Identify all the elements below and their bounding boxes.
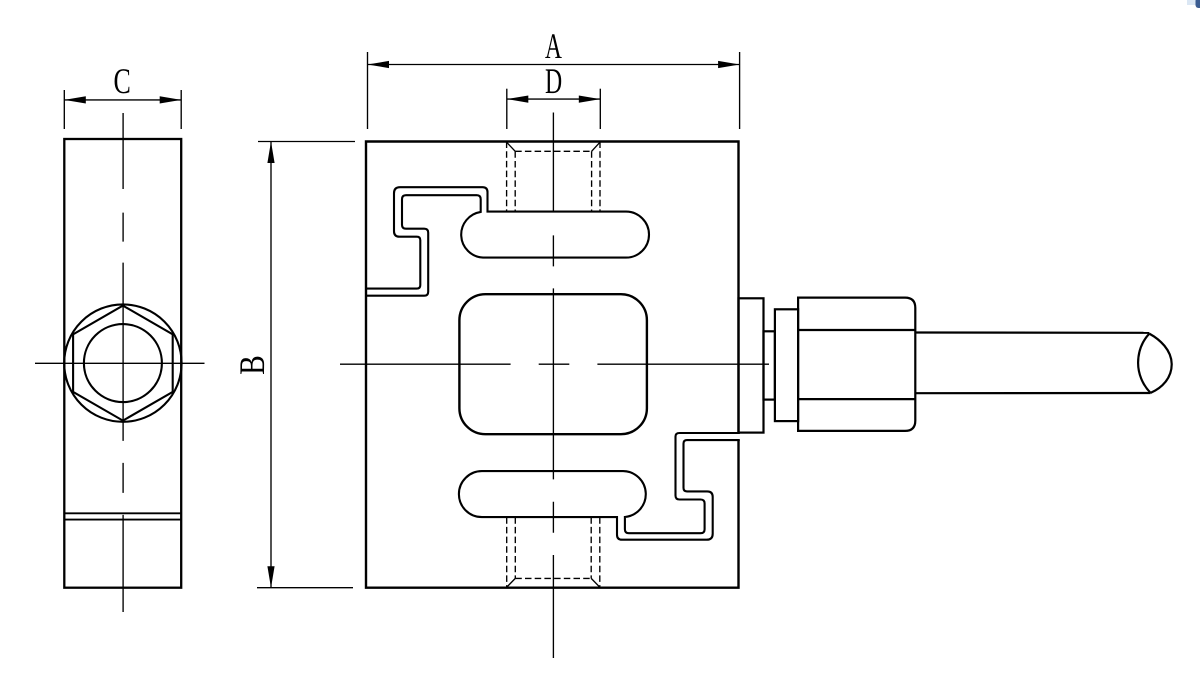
dim A arrow left bbox=[368, 61, 390, 68]
dim D line bbox=[507, 98, 601, 100]
dim B arrow up bbox=[267, 142, 274, 164]
bottom hole chamfer left bbox=[507, 578, 516, 587]
cable gland ring bbox=[764, 331, 775, 399]
top threaded hole hidden lines bbox=[507, 142, 600, 212]
dim C line bbox=[64, 99, 181, 101]
dim C label bbox=[113, 61, 130, 101]
cable top line bbox=[915, 331, 1149, 333]
dim A label bbox=[545, 26, 562, 66]
cable bottom line bbox=[915, 392, 1150, 394]
blue corner mark bbox=[1187, 0, 1196, 5]
dim C extension line left bbox=[63, 90, 65, 129]
dim A arrow right bbox=[718, 61, 740, 68]
svg-text:B: B bbox=[232, 355, 272, 375]
svg-text:D: D bbox=[545, 61, 562, 101]
left view horizontal centerline bbox=[35, 362, 205, 364]
top hole chamfer right bbox=[592, 142, 600, 151]
cable gland flange bbox=[775, 309, 798, 421]
left view vertical centerline bbox=[122, 113, 124, 612]
hex nut bore circle bbox=[84, 324, 162, 402]
dim C arrow left bbox=[64, 96, 86, 103]
dim D extension line left bbox=[506, 89, 508, 129]
gland nut hex flat line bottom bbox=[798, 398, 915, 400]
dim B label bbox=[232, 355, 272, 375]
dim A extension line right bbox=[739, 52, 741, 129]
dim D arrow left bbox=[507, 96, 529, 103]
dim C arrow right bbox=[160, 96, 182, 103]
dim A extension line left bbox=[367, 52, 369, 129]
right view vertical centerline bbox=[552, 113, 554, 659]
dim C extension line right bbox=[180, 90, 182, 129]
right view body outline bbox=[366, 142, 739, 588]
dim D extension line right bbox=[599, 89, 601, 129]
dim B line with arrows bbox=[270, 142, 272, 588]
svg-text:A: A bbox=[545, 26, 562, 66]
bottom hole chamfer right bbox=[591, 578, 600, 587]
left view parting line upper bbox=[64, 512, 181, 514]
center hole rounded square bbox=[459, 294, 647, 434]
gland nut hex flat line top bbox=[798, 329, 915, 331]
cable gland nut body bbox=[798, 298, 915, 431]
svg-text:C: C bbox=[113, 61, 130, 101]
dim D label bbox=[545, 61, 562, 101]
hex nut outer circle bbox=[64, 304, 181, 421]
top hole chamfer left bbox=[507, 142, 516, 151]
right view horizontal centerline bbox=[340, 363, 769, 365]
cable rounded tip bbox=[1138, 334, 1172, 393]
lower S-groove and slot cavity (180deg rotation of upper) bbox=[459, 433, 740, 540]
dim D arrow right bbox=[579, 96, 601, 103]
hex nut hexagon bbox=[73, 306, 173, 421]
left view parting line lower bbox=[64, 519, 181, 521]
upper S-groove and slot cavity bbox=[366, 187, 649, 296]
dim B extension line top bbox=[258, 141, 355, 143]
cable gland boss bbox=[739, 298, 764, 432]
dim B extension line bottom bbox=[257, 587, 353, 589]
dim B arrow down bbox=[267, 566, 274, 588]
bottom threaded hole hidden lines bbox=[507, 517, 600, 588]
left view body outline bbox=[64, 139, 181, 588]
dim A line bbox=[368, 64, 740, 66]
